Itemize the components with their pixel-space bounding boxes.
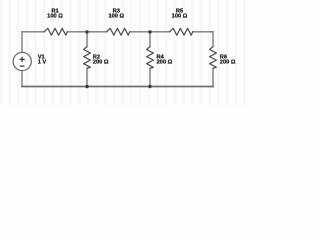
svg-text:100 Ω: 100 Ω — [47, 14, 63, 20]
svg-text:100 Ω: 100 Ω — [108, 14, 124, 20]
svg-text:200 Ω: 200 Ω — [220, 60, 236, 66]
svg-text:200 Ω: 200 Ω — [157, 60, 173, 66]
svg-text:100 Ω: 100 Ω — [172, 14, 188, 20]
svg-text:200 Ω: 200 Ω — [93, 60, 109, 66]
svg-text:1 V: 1 V — [38, 60, 47, 66]
